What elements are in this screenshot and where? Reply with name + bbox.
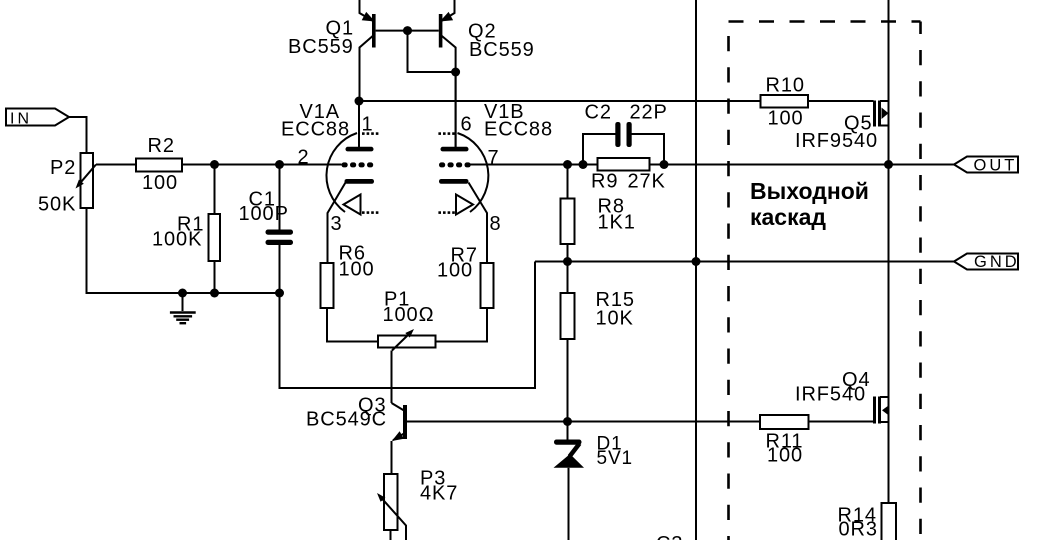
wire P2 wiper to R2 (96, 164, 136, 166)
label output stage (Russian) (750, 178, 869, 230)
svg-text:27K: 27K (628, 171, 666, 193)
svg-text:6: 6 (461, 114, 473, 136)
node R1 bottom junction (210, 289, 219, 298)
svg-text:4K7: 4K7 (420, 483, 458, 505)
value BC559 (Q1) (288, 36, 354, 58)
node ground tap (178, 289, 187, 298)
label R9 27K (591, 171, 666, 193)
label Q2 (468, 21, 496, 43)
wire P2 bottom to ground rail (87, 208, 280, 293)
svg-text:8: 8 (490, 213, 502, 235)
node C1 bottom junction (275, 289, 284, 298)
capacitor C2 (583, 122, 664, 165)
value 100 (R11) (767, 445, 803, 467)
pin 8 (490, 213, 502, 235)
value 0R3 (839, 519, 878, 540)
svg-text:C3: C3 (656, 533, 683, 540)
svg-text:1: 1 (362, 114, 374, 136)
value 22P (630, 102, 668, 124)
svg-text:22P: 22P (630, 102, 668, 124)
value 100 (R6) (339, 259, 375, 281)
label C1 (249, 189, 276, 211)
svg-text:ECC88: ECC88 (281, 119, 350, 141)
transistor Q1 (360, 0, 376, 101)
svg-text:P2: P2 (50, 157, 76, 179)
label R8 (598, 196, 625, 218)
label R11 (766, 431, 804, 453)
resistor R1 (209, 165, 221, 294)
label D1 (597, 434, 623, 455)
svg-text:100Ω: 100Ω (383, 304, 435, 326)
label R10 (766, 75, 805, 97)
svg-text:Выходной: Выходной (750, 178, 869, 204)
wire D1 node to R11 (568, 421, 761, 423)
svg-text:100: 100 (768, 108, 804, 130)
svg-text:7: 7 (488, 147, 500, 169)
value IRF9540 (795, 130, 878, 152)
node Q2 collector junction (451, 68, 460, 77)
value 100 (R7) (437, 260, 473, 282)
label C2 (585, 102, 612, 124)
label C3 (cut off at bottom) (656, 533, 683, 540)
svg-text:10K: 10K (596, 308, 634, 330)
svg-text:100: 100 (437, 260, 473, 282)
node C1 top junction (275, 160, 284, 169)
resistor R15 (561, 262, 575, 422)
resistor R9 (598, 158, 650, 171)
value 10K (596, 308, 634, 330)
connector GND (954, 253, 1020, 271)
svg-text:BC549C: BC549C (306, 409, 387, 431)
potentiometer P1 (378, 329, 436, 403)
svg-text:5V1: 5V1 (597, 448, 634, 469)
label V1A (300, 101, 341, 123)
node R8/R15 GND junction (563, 257, 572, 266)
label P3 (420, 468, 446, 490)
value 100K (152, 229, 202, 251)
value 50K (38, 194, 76, 216)
svg-text:IRF540: IRF540 (795, 384, 866, 406)
transistor Q4 (MOSFET) (875, 397, 890, 424)
svg-text:R10: R10 (766, 75, 805, 97)
pin 1 (362, 114, 374, 136)
label P1 (384, 289, 410, 311)
svg-text:OUT: OUT (974, 157, 1018, 175)
diode D1 (zener) (554, 422, 585, 540)
value 1K1 (598, 212, 636, 234)
node V1B grid / R8 top junction (563, 160, 572, 169)
node GND rail junction (692, 257, 701, 266)
resistor R14 (882, 503, 897, 540)
value 5V1 (597, 448, 634, 469)
value ECC88 (V1B) (484, 119, 553, 141)
svg-text:IN: IN (10, 111, 32, 128)
potentiometer P2 (76, 153, 97, 208)
svg-text:GND: GND (974, 253, 1020, 271)
wire R9 to OUT (650, 164, 955, 166)
resistor R2 (136, 159, 182, 172)
pin 3 (331, 213, 343, 235)
wire IN to P2 top (69, 117, 87, 153)
svg-text:100K: 100K (152, 229, 202, 251)
value IRF540 (795, 384, 866, 406)
resistor R7 (436, 263, 494, 342)
svg-text:каскад: каскад (750, 204, 826, 230)
transistor Q3 (392, 403, 408, 474)
label P2 (50, 157, 76, 179)
value 100 (R2) (142, 172, 178, 194)
svg-text:2: 2 (298, 147, 310, 169)
wire Q3 base to D1 node (407, 421, 568, 423)
wire R2 to V1A grid (182, 164, 342, 166)
pin 2 (298, 147, 310, 169)
label R14 (838, 505, 877, 527)
pin 6 (461, 114, 473, 136)
resistor R8 (561, 165, 575, 262)
wire GND rail (535, 261, 954, 263)
svg-text:R9: R9 (591, 171, 618, 193)
svg-text:100: 100 (142, 172, 178, 194)
label R6 (339, 243, 366, 265)
wire C1 bottom down and across to GND rail riser (280, 262, 536, 389)
transistor Q5 (MOSFET) (875, 101, 889, 127)
wire Q1 base to Q2 base (376, 30, 439, 32)
label Q3 (358, 395, 386, 417)
svg-text:BC559: BC559 (469, 39, 535, 61)
wire base rail to Q2 collector (408, 31, 456, 72)
pin 7 (488, 147, 500, 169)
wire vertical rail (left supply) (695, 0, 697, 540)
node OUT rail junction (884, 160, 893, 169)
svg-text:ECC88: ECC88 (484, 119, 553, 141)
svg-text:C2: C2 (585, 102, 612, 124)
label R7 (451, 245, 478, 267)
svg-text:IRF9540: IRF9540 (795, 130, 878, 152)
value 100 (R10) (768, 108, 804, 130)
svg-text:50K: 50K (38, 194, 76, 216)
label R1 (177, 214, 204, 236)
label Q5 (844, 113, 872, 135)
transistor Q2 (439, 0, 456, 147)
ground (170, 293, 196, 323)
resistor R10 (761, 95, 874, 108)
node Q3 base / R15 / D1 junction (563, 417, 572, 426)
label R15 (596, 289, 635, 311)
svg-text:R2: R2 (148, 135, 175, 157)
output stage dashed box (729, 22, 921, 540)
value 100P (239, 203, 289, 225)
node R1 top junction (210, 160, 219, 169)
svg-text:100P: 100P (239, 203, 289, 225)
node C2 left junction (579, 160, 588, 169)
tube V1B (triode, ECC88) (438, 72, 488, 263)
node C2 right junction (660, 160, 669, 169)
potentiometer P3 (377, 474, 406, 540)
svg-text:100: 100 (339, 259, 375, 281)
value ECC88 (V1A) (281, 119, 350, 141)
wire output rail (888, 0, 890, 503)
node base rail junction (403, 26, 412, 35)
connector IN (6, 109, 69, 128)
svg-text:BC559: BC559 (288, 36, 354, 58)
svg-text:1K1: 1K1 (598, 212, 636, 234)
label Q4 (842, 369, 870, 391)
value BC559 (Q2) (469, 39, 535, 61)
svg-text:0R3: 0R3 (839, 519, 878, 540)
resistor R6 (321, 263, 379, 342)
svg-text:100: 100 (767, 445, 803, 467)
capacitor C1 (266, 165, 294, 294)
resistor R11 (760, 415, 874, 429)
wire V1B grid to R9 (470, 164, 598, 166)
node Q1 collector / plate line junction (355, 97, 364, 106)
value BC549C (306, 409, 387, 431)
label R2 (148, 135, 175, 157)
svg-text:3: 3 (331, 213, 343, 235)
value 100 ohm (383, 304, 435, 326)
label Q1 (326, 18, 354, 40)
tube V1A (triode, ECC88) (326, 101, 378, 263)
label V1B (484, 101, 525, 123)
value 4K7 (420, 483, 458, 505)
connector OUT (954, 157, 1018, 175)
wire plate line to R10 (359, 100, 761, 102)
